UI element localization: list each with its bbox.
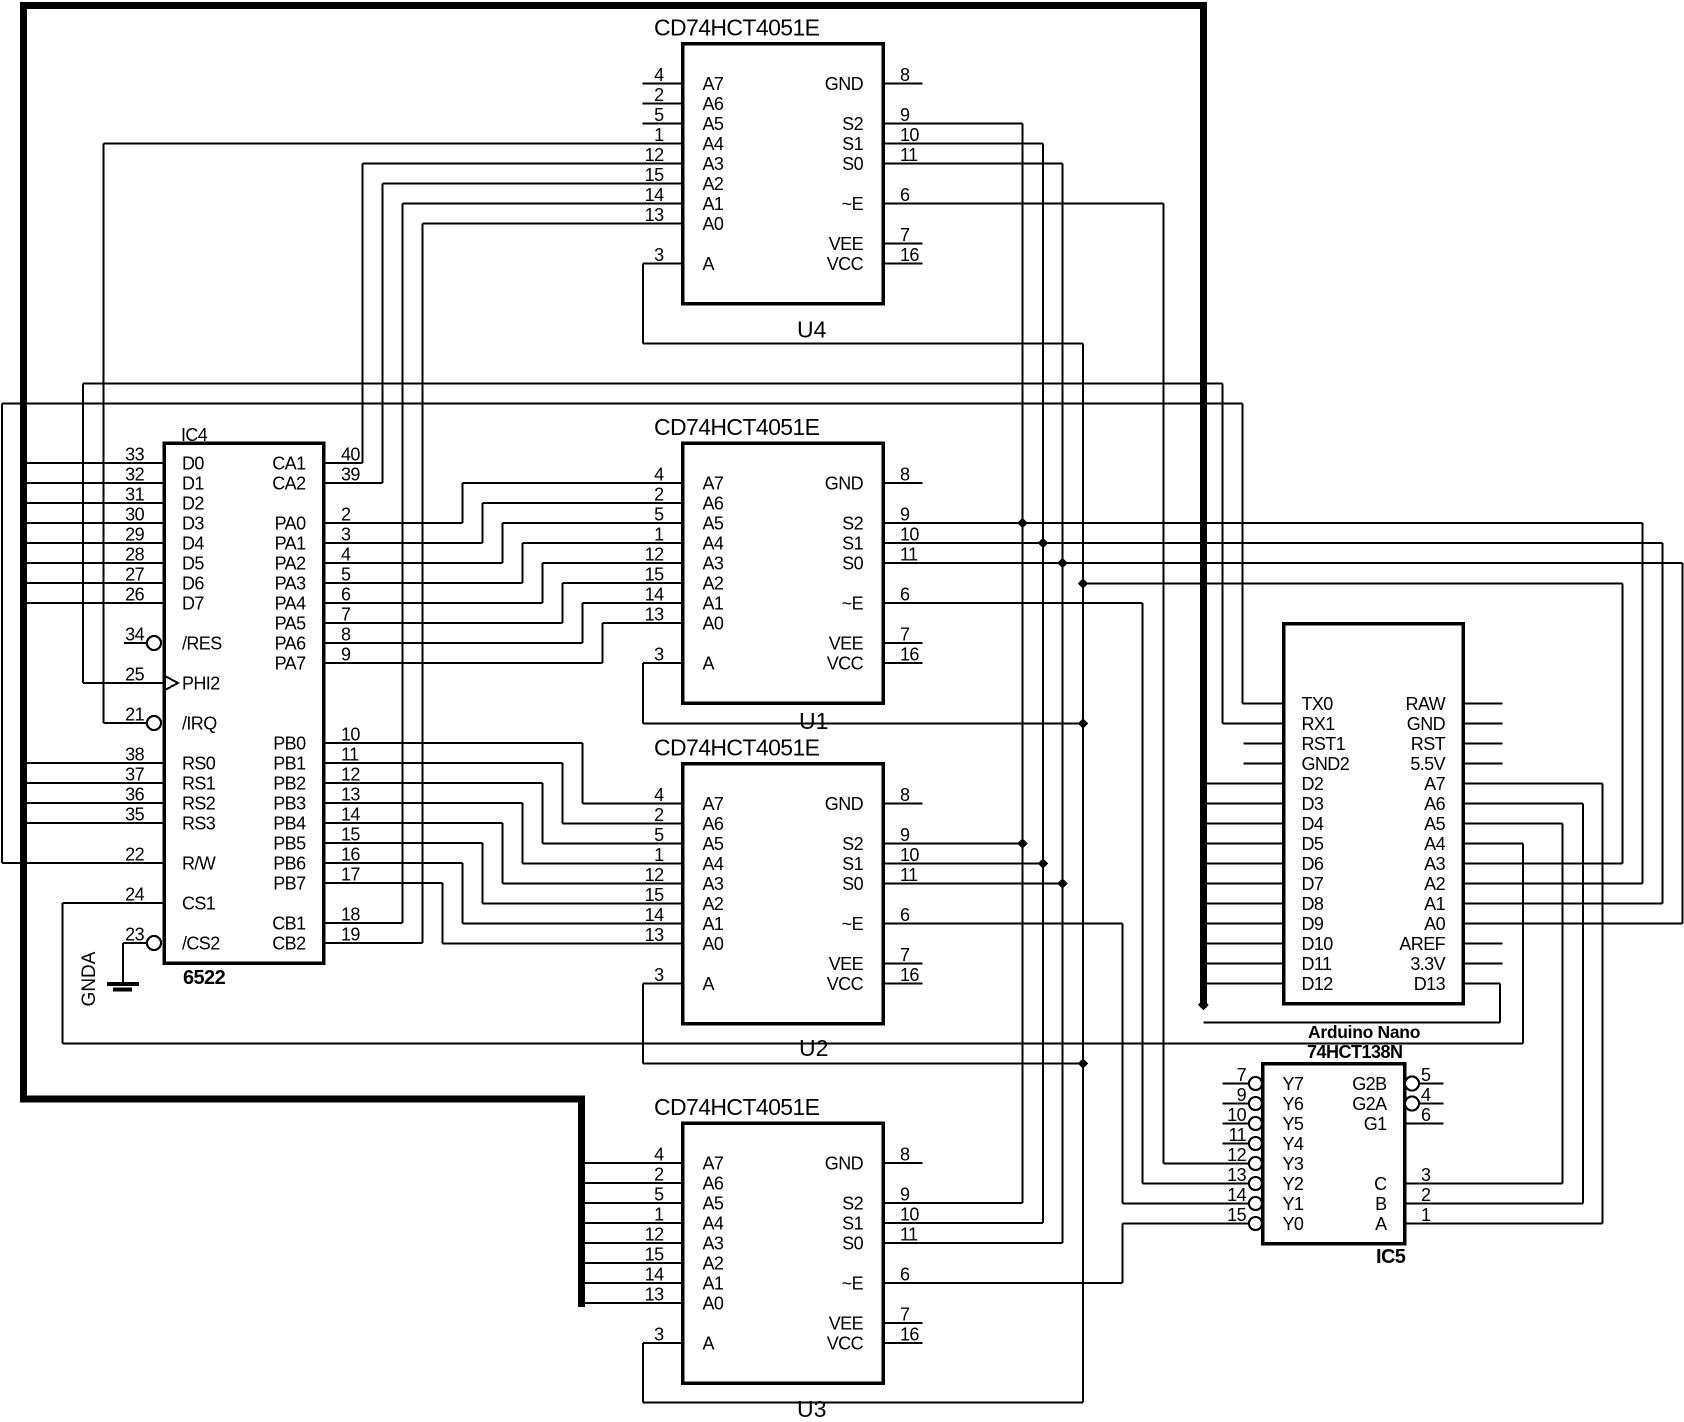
wire U1 VCC stub bbox=[883, 662, 923, 664]
svg-text:Arduino Nano: Arduino Nano bbox=[1308, 1022, 1420, 1042]
multiplexer U4 CD74HCT4051E body bbox=[683, 44, 884, 304]
wire net AOUT: U4 A common to analog bus bbox=[643, 264, 1083, 1403]
svg-text:9: 9 bbox=[900, 105, 910, 125]
junction S2/U2 bbox=[1017, 838, 1028, 849]
wire net S0 tap at U2 bbox=[883, 883, 1063, 885]
svg-text:A: A bbox=[703, 254, 715, 274]
svg-text:A7: A7 bbox=[703, 474, 724, 494]
wire net S2: U4/U1/U2/U3 S2 select line bbox=[883, 124, 1023, 1204]
svg-text:S0: S0 bbox=[842, 874, 863, 894]
wire net S2 tap at U2 bbox=[883, 843, 1023, 845]
svg-text:10: 10 bbox=[900, 525, 919, 545]
svg-text:1: 1 bbox=[654, 845, 664, 865]
wire net PB1: IC4 PB1 to U2 A6 bbox=[324, 763, 683, 824]
svg-text:22: 22 bbox=[125, 845, 144, 865]
svg-text:VEE: VEE bbox=[829, 634, 864, 654]
svg-text:25: 25 bbox=[125, 665, 144, 685]
IC4 pin 21 /IRQ inverting circle bbox=[147, 716, 161, 730]
svg-text:PB0: PB0 bbox=[273, 734, 306, 754]
svg-text:9: 9 bbox=[900, 1185, 910, 1205]
wire Arduino RST stub bbox=[1463, 743, 1503, 745]
U3 pin names bbox=[703, 1154, 864, 1354]
svg-text:15: 15 bbox=[645, 165, 664, 185]
wire net CB1: IC4 CB1 pin 18 to U4 A1 pin 14 bbox=[324, 204, 683, 924]
svg-text:Y0: Y0 bbox=[1283, 1214, 1304, 1234]
svg-text:PB1: PB1 bbox=[273, 754, 306, 774]
svg-text:D2: D2 bbox=[182, 494, 204, 514]
svg-text:VCC: VCC bbox=[827, 1334, 864, 1354]
wire net PHI2: IC4 PHI2 pin 25 to Arduino RX1 bbox=[83, 384, 1223, 724]
svg-text:A0: A0 bbox=[703, 214, 724, 234]
svg-text:2: 2 bbox=[1421, 1185, 1431, 1205]
svg-text:R/W: R/W bbox=[182, 854, 216, 874]
svg-text:GND: GND bbox=[1407, 714, 1446, 734]
svg-text:38: 38 bbox=[125, 745, 144, 765]
svg-text:D13: D13 bbox=[1414, 974, 1446, 994]
wire net PB4: IC4 PB4 to U2 A3 bbox=[324, 823, 683, 884]
svg-text:RST1: RST1 bbox=[1302, 734, 1346, 754]
svg-text:6522: 6522 bbox=[183, 967, 226, 989]
svg-text:G2A: G2A bbox=[1352, 1094, 1387, 1114]
svg-text:PA6: PA6 bbox=[275, 634, 306, 654]
svg-text:S0: S0 bbox=[842, 1234, 863, 1254]
svg-text:11: 11 bbox=[900, 545, 918, 565]
svg-text:A1: A1 bbox=[703, 914, 724, 934]
U2 pin names bbox=[703, 794, 864, 994]
svg-text:GND: GND bbox=[825, 474, 864, 494]
svg-text:PA2: PA2 bbox=[275, 554, 306, 574]
svg-text:16: 16 bbox=[900, 965, 919, 985]
svg-text:A3: A3 bbox=[703, 554, 724, 574]
svg-text:12: 12 bbox=[645, 1225, 664, 1245]
svg-text:6: 6 bbox=[900, 185, 910, 205]
svg-text:5.5V: 5.5V bbox=[1410, 754, 1445, 774]
wire net PA7: IC4 PA7 to U1 A0 bbox=[324, 623, 683, 663]
svg-text:A7: A7 bbox=[703, 794, 724, 814]
svg-text:8: 8 bbox=[900, 465, 910, 485]
svg-text:16: 16 bbox=[900, 245, 919, 265]
svg-text:14: 14 bbox=[341, 805, 360, 825]
svg-text:CA2: CA2 bbox=[272, 474, 306, 494]
wire net S0 branch: U1 S0 to Arduino A0 bbox=[883, 563, 1683, 924]
svg-text:74HCT138N: 74HCT138N bbox=[1307, 1042, 1403, 1062]
svg-text:5: 5 bbox=[654, 1185, 664, 1205]
svg-text:5: 5 bbox=[654, 825, 664, 845]
svg-text:29: 29 bbox=[125, 525, 144, 545]
svg-text:D0: D0 bbox=[182, 454, 204, 474]
wire net S1 branch: U1 S1 to Arduino A1 bbox=[883, 543, 1663, 904]
svg-text:IC4: IC4 bbox=[181, 425, 208, 445]
svg-text:3: 3 bbox=[1421, 1165, 1431, 1185]
IC4 left pin names bbox=[182, 454, 222, 954]
wire U1 VEE stub bbox=[883, 642, 923, 644]
svg-text:3: 3 bbox=[654, 965, 664, 985]
svg-text:1: 1 bbox=[1421, 1205, 1431, 1225]
svg-text:D3: D3 bbox=[1302, 794, 1324, 814]
svg-text:RS2: RS2 bbox=[182, 794, 216, 814]
wire RS0 bus stub bbox=[27, 762, 164, 764]
wire net /IRQ: IC4 /IRQ pin 21 to U4 A4 pin 1 bbox=[104, 144, 683, 724]
wire RS1 bus stub bbox=[27, 782, 164, 784]
svg-text:2: 2 bbox=[654, 1165, 664, 1185]
svg-text:12: 12 bbox=[645, 545, 664, 565]
wire U1 GND stub bbox=[883, 482, 923, 484]
svg-text:7: 7 bbox=[900, 625, 910, 645]
svg-text:32: 32 bbox=[125, 465, 144, 485]
wire net ADDR-A: Arduino A7 to IC5 A bbox=[1405, 784, 1603, 1224]
wire Arduino D9 bus stub bbox=[1207, 923, 1284, 925]
junction bus end at D13 net bbox=[1198, 1000, 1209, 1011]
IC5 Y4 stub and inverting circle bbox=[1223, 1137, 1263, 1150]
svg-text:3: 3 bbox=[341, 525, 351, 545]
svg-text:10: 10 bbox=[341, 725, 360, 745]
wire net D13: Arduino D13 to bus end bbox=[1203, 984, 1500, 1023]
svg-text:RAW: RAW bbox=[1405, 694, 1445, 714]
wire U3 VEE stub bbox=[883, 1322, 923, 1324]
svg-text:13: 13 bbox=[645, 1285, 664, 1305]
wire U2 GND stub bbox=[883, 803, 923, 805]
svg-text:14: 14 bbox=[645, 905, 664, 925]
wire net PB3: IC4 PB3 to U2 A4 bbox=[324, 803, 683, 864]
svg-text:12: 12 bbox=[645, 865, 664, 885]
svg-text:PB6: PB6 bbox=[273, 854, 306, 874]
U1 pin numbers bbox=[645, 465, 920, 665]
svg-text:9: 9 bbox=[900, 825, 910, 845]
wire U4 GND stub bbox=[883, 83, 923, 85]
IC4 left pin numbers bbox=[125, 445, 144, 945]
svg-text:RST: RST bbox=[1411, 734, 1446, 754]
svg-text:A3: A3 bbox=[703, 1234, 724, 1254]
svg-text:8: 8 bbox=[900, 785, 910, 805]
svg-text:D4: D4 bbox=[1302, 814, 1324, 834]
wire net S0 tap at U3 bbox=[883, 1242, 1063, 1244]
svg-text:CA1: CA1 bbox=[272, 454, 306, 474]
svg-text:GND: GND bbox=[825, 1154, 864, 1174]
svg-text:CS1: CS1 bbox=[182, 894, 216, 914]
ground symbol GNDA bbox=[107, 984, 139, 990]
wire Arduino D2 bus stub bbox=[1207, 783, 1284, 785]
svg-text:PHI2: PHI2 bbox=[182, 674, 220, 694]
wire U2 VCC stub bbox=[883, 983, 923, 985]
wire U3 VCC stub bbox=[883, 1342, 923, 1344]
wire net S2 branch: U1 S2 to Arduino A2 bbox=[883, 523, 1643, 884]
wire Arduino D12 bus stub bbox=[1207, 983, 1284, 985]
module Arduino Nano body bbox=[1284, 624, 1464, 1004]
wire net /CS2 to analog ground bbox=[123, 943, 147, 982]
svg-text:13: 13 bbox=[1227, 1165, 1246, 1185]
svg-text:35: 35 bbox=[125, 805, 144, 825]
svg-text:A1: A1 bbox=[1424, 894, 1445, 914]
IC5 Y0 inverting circle bbox=[1249, 1217, 1262, 1230]
U1 pin names bbox=[703, 474, 864, 674]
svg-text:PA0: PA0 bbox=[275, 514, 306, 534]
svg-text:~E: ~E bbox=[842, 194, 864, 214]
svg-text:4: 4 bbox=[654, 465, 664, 485]
svg-text:24: 24 bbox=[125, 885, 144, 905]
IC5 Y5 stub and inverting circle bbox=[1223, 1117, 1263, 1130]
IC U1? no: IC4 6522 VIA body bbox=[164, 443, 324, 963]
svg-text:GND2: GND2 bbox=[1302, 754, 1350, 774]
svg-text:C: C bbox=[1374, 1174, 1387, 1194]
svg-text:13: 13 bbox=[645, 205, 664, 225]
wire /RES stub bbox=[124, 642, 147, 644]
svg-text:TX0: TX0 bbox=[1302, 694, 1334, 714]
svg-text:31: 31 bbox=[125, 485, 144, 505]
svg-text:2: 2 bbox=[654, 805, 664, 825]
svg-text:/CS2: /CS2 bbox=[182, 934, 220, 954]
svg-text:~E: ~E bbox=[842, 594, 864, 614]
svg-text:A5: A5 bbox=[703, 514, 724, 534]
svg-text:G1: G1 bbox=[1364, 1114, 1387, 1134]
svg-text:S0: S0 bbox=[842, 554, 863, 574]
wire U3 A4 bus stub bbox=[585, 1222, 683, 1224]
svg-text:D1: D1 bbox=[182, 474, 204, 494]
wire U4 A7 stub bbox=[643, 83, 683, 85]
svg-text:A: A bbox=[703, 654, 715, 674]
wire net E4: U4 ~E enable to IC5 Y3 bbox=[883, 204, 1249, 1164]
svg-text:A5: A5 bbox=[703, 1194, 724, 1214]
svg-text:/IRQ: /IRQ bbox=[182, 714, 217, 734]
wire RS2 bus stub bbox=[27, 802, 164, 804]
svg-text:16: 16 bbox=[341, 845, 360, 865]
svg-text:2: 2 bbox=[654, 85, 664, 105]
svg-text:A4: A4 bbox=[703, 134, 724, 154]
svg-text:A7: A7 bbox=[703, 1154, 724, 1174]
svg-text:D5: D5 bbox=[182, 554, 204, 574]
wire Arduino RST1 stub bbox=[1244, 743, 1284, 745]
svg-text:RX1: RX1 bbox=[1302, 714, 1336, 734]
svg-text:A6: A6 bbox=[703, 1174, 724, 1194]
wire net E2: U2 ~E enable to IC5 Y1 bbox=[883, 924, 1249, 1204]
svg-text:Y4: Y4 bbox=[1283, 1134, 1304, 1154]
svg-text:A5: A5 bbox=[703, 114, 724, 134]
svg-text:A5: A5 bbox=[703, 834, 724, 854]
svg-text:6: 6 bbox=[900, 905, 910, 925]
svg-text:7: 7 bbox=[900, 1305, 910, 1325]
svg-text:A0: A0 bbox=[1424, 914, 1445, 934]
svg-text:16: 16 bbox=[900, 1325, 919, 1345]
junction AOUT/U2 bbox=[1078, 1058, 1089, 1069]
svg-text:A7: A7 bbox=[703, 74, 724, 94]
svg-text:11: 11 bbox=[900, 1225, 918, 1245]
wire net AOUT branch: U2 A common bbox=[643, 984, 1083, 1064]
svg-text:G2B: G2B bbox=[1352, 1074, 1387, 1094]
svg-text:21: 21 bbox=[125, 705, 144, 725]
wire Arduino TX0 lead bbox=[1243, 703, 1284, 705]
svg-text:11: 11 bbox=[900, 145, 918, 165]
wire Arduino GND2 stub bbox=[1244, 763, 1284, 765]
svg-text:28: 28 bbox=[125, 545, 144, 565]
IC5 pin numbers bbox=[1227, 1065, 1431, 1225]
svg-text:VCC: VCC bbox=[827, 654, 864, 674]
svg-text:PB2: PB2 bbox=[273, 774, 306, 794]
wire net E3: U3 ~E enable to IC5 Y0 bbox=[883, 1224, 1249, 1284]
U3 pin numbers bbox=[645, 1145, 920, 1345]
svg-text:D10: D10 bbox=[1302, 934, 1334, 954]
IC5 G2A stub and inverting circle bbox=[1405, 1097, 1444, 1111]
wire D3 bus stub bbox=[27, 522, 164, 524]
decoder IC5 74HCT138N body bbox=[1263, 1064, 1405, 1244]
svg-text:26: 26 bbox=[125, 585, 144, 605]
wire U3 GND stub bbox=[883, 1162, 923, 1164]
svg-text:A2: A2 bbox=[703, 1254, 724, 1274]
wire net PA1: IC4 PA1 to U1 A6 bbox=[324, 503, 683, 543]
wire net AOUT branch: U3 A common bbox=[643, 1343, 1083, 1403]
svg-text:D6: D6 bbox=[1302, 854, 1324, 874]
svg-text:8: 8 bbox=[341, 625, 351, 645]
svg-text:15: 15 bbox=[341, 825, 360, 845]
svg-text:PA4: PA4 bbox=[275, 594, 306, 614]
multiplexer U3 CD74HCT4051E body bbox=[683, 1123, 884, 1383]
svg-text:3: 3 bbox=[654, 245, 664, 265]
wire net PA5: IC4 PA5 to U1 A2 bbox=[324, 583, 683, 623]
wire net PB6: IC4 PB6 to U2 A1 bbox=[324, 863, 683, 924]
IC5 pin names bbox=[1283, 1074, 1388, 1234]
svg-text:10: 10 bbox=[900, 125, 919, 145]
wire U4 VEE stub bbox=[883, 243, 923, 245]
svg-text:15: 15 bbox=[1227, 1205, 1246, 1225]
wire net PA6: IC4 PA6 to U1 A1 bbox=[324, 603, 683, 643]
svg-text:A6: A6 bbox=[1424, 794, 1445, 814]
bus: data bus routed around left/top, from Arduino D2-D12 to IC4 data pins and U3 inputs bbox=[24, 6, 1204, 1304]
svg-text:RS3: RS3 bbox=[182, 814, 216, 834]
junction S0/U1 bbox=[1057, 558, 1068, 569]
wire net S1 tap at U2 bbox=[883, 863, 1043, 865]
wire U3 A1 bus stub bbox=[585, 1282, 683, 1284]
svg-text:S2: S2 bbox=[842, 834, 863, 854]
svg-text:4: 4 bbox=[1421, 1085, 1431, 1105]
svg-text:14: 14 bbox=[645, 185, 664, 205]
svg-text:7: 7 bbox=[900, 945, 910, 965]
IC4 pin 25 PHI2 clock symbol bbox=[164, 676, 178, 691]
wire net S1: U4/U1/U2/U3 S1 select line bbox=[883, 144, 1043, 1224]
svg-text:GND: GND bbox=[825, 794, 864, 814]
svg-text:14: 14 bbox=[645, 585, 664, 605]
svg-text:RS0: RS0 bbox=[182, 754, 216, 774]
wire U2 VEE stub bbox=[883, 963, 923, 965]
svg-text:PB5: PB5 bbox=[273, 834, 306, 854]
svg-text:A4: A4 bbox=[703, 854, 724, 874]
svg-text:9: 9 bbox=[900, 505, 910, 525]
svg-text:19: 19 bbox=[341, 925, 360, 945]
IC5 Y6 stub and inverting circle bbox=[1223, 1097, 1263, 1110]
wire D4 bus stub bbox=[27, 542, 164, 544]
svg-text:VEE: VEE bbox=[829, 1314, 864, 1334]
svg-text:A0: A0 bbox=[703, 934, 724, 954]
svg-text:A: A bbox=[1375, 1214, 1387, 1234]
svg-text:15: 15 bbox=[645, 565, 664, 585]
svg-text:D6: D6 bbox=[182, 574, 204, 594]
wire net PB5: IC4 PB5 to U2 A2 bbox=[324, 843, 683, 904]
wire U4 VCC stub bbox=[883, 263, 923, 265]
svg-text:5: 5 bbox=[341, 565, 351, 585]
svg-text:4: 4 bbox=[654, 65, 664, 85]
IC5 Y1 inverting circle bbox=[1249, 1197, 1262, 1210]
svg-text:D4: D4 bbox=[182, 534, 204, 554]
svg-text:CD74HCT4051E: CD74HCT4051E bbox=[654, 15, 820, 41]
svg-text:40: 40 bbox=[341, 445, 360, 465]
svg-text:D9: D9 bbox=[1302, 914, 1324, 934]
wire net CA1: IC4 CA1 pin 40 to U4 A3 pin 12 bbox=[324, 164, 683, 464]
svg-text:A2: A2 bbox=[703, 894, 724, 914]
svg-text:13: 13 bbox=[341, 785, 360, 805]
svg-text:A2: A2 bbox=[703, 174, 724, 194]
wire Arduino D11 bus stub bbox=[1207, 963, 1284, 965]
svg-text:7: 7 bbox=[341, 605, 351, 625]
svg-text:S1: S1 bbox=[842, 534, 863, 554]
svg-text:12: 12 bbox=[1227, 1145, 1246, 1165]
wire net PB7: IC4 PB7 to U2 A0 bbox=[324, 883, 683, 944]
svg-text:U1: U1 bbox=[799, 708, 828, 734]
wire net E1: U1 ~E enable to IC5 Y2 bbox=[883, 603, 1249, 1184]
U4 pin numbers bbox=[645, 65, 920, 265]
svg-text:S2: S2 bbox=[842, 514, 863, 534]
svg-text:8: 8 bbox=[900, 65, 910, 85]
wire U3 A6 bus stub bbox=[585, 1182, 683, 1184]
wire Arduino RX1 lead bbox=[1223, 723, 1284, 725]
IC5 G1 stub bbox=[1405, 1123, 1444, 1125]
svg-text:VEE: VEE bbox=[829, 954, 864, 974]
svg-text:A0: A0 bbox=[703, 614, 724, 634]
wire U3 A3 bus stub bbox=[585, 1242, 683, 1244]
wire net S1 tap at U3 bbox=[883, 1222, 1043, 1224]
wire net PA2: IC4 PA2 to U1 A5 bbox=[324, 523, 683, 563]
wire Arduino RAW stub bbox=[1463, 703, 1503, 705]
svg-text:RS1: RS1 bbox=[182, 774, 216, 794]
wire net PA4: IC4 PA4 to U1 A3 bbox=[324, 563, 683, 603]
wire Arduino 3.3V stub bbox=[1463, 963, 1503, 965]
svg-text:IC5: IC5 bbox=[1376, 1246, 1406, 1268]
svg-text:A6: A6 bbox=[703, 494, 724, 514]
svg-text:A3: A3 bbox=[703, 154, 724, 174]
svg-text:A: A bbox=[703, 974, 715, 994]
svg-text:12: 12 bbox=[645, 145, 664, 165]
IC5 Y3 inverting circle bbox=[1249, 1157, 1262, 1170]
U2 pin numbers bbox=[645, 785, 920, 985]
svg-text:4: 4 bbox=[654, 785, 664, 805]
svg-text:Y2: Y2 bbox=[1283, 1174, 1304, 1194]
svg-text:VEE: VEE bbox=[829, 234, 864, 254]
wire net PB2: IC4 PB2 to U2 A5 bbox=[324, 783, 683, 844]
wire D5 bus stub bbox=[27, 562, 164, 564]
svg-text:9: 9 bbox=[341, 645, 351, 665]
wire U3 A0 bus stub bbox=[585, 1302, 683, 1304]
svg-text:14: 14 bbox=[645, 1265, 664, 1285]
wire net PA0: IC4 PA0 to U1 A7 bbox=[324, 483, 683, 523]
wire net ADDR-B: Arduino A6 to IC5 B bbox=[1405, 804, 1584, 1204]
svg-text:13: 13 bbox=[645, 925, 664, 945]
svg-text:A6: A6 bbox=[703, 94, 724, 114]
svg-text:17: 17 bbox=[341, 865, 360, 885]
svg-text:D7: D7 bbox=[182, 594, 204, 614]
wire D7 bus stub bbox=[27, 602, 164, 604]
svg-text:A5: A5 bbox=[1424, 814, 1445, 834]
svg-text:S0: S0 bbox=[842, 154, 863, 174]
svg-text:8: 8 bbox=[900, 1145, 910, 1165]
svg-text:PB7: PB7 bbox=[273, 874, 306, 894]
svg-text:4: 4 bbox=[654, 1145, 664, 1165]
multiplexer U2 CD74HCT4051E body bbox=[683, 764, 884, 1024]
svg-text:~E: ~E bbox=[842, 1274, 864, 1294]
wire Arduino D4 bus stub bbox=[1207, 823, 1284, 825]
svg-text:6: 6 bbox=[1421, 1105, 1431, 1125]
svg-text:GNDA: GNDA bbox=[79, 951, 100, 1006]
svg-text:A3: A3 bbox=[1424, 854, 1445, 874]
svg-text:9: 9 bbox=[1237, 1085, 1247, 1105]
wire D0 bus stub bbox=[27, 462, 164, 464]
svg-text:12: 12 bbox=[341, 765, 360, 785]
junction S0/U2 bbox=[1057, 878, 1068, 889]
